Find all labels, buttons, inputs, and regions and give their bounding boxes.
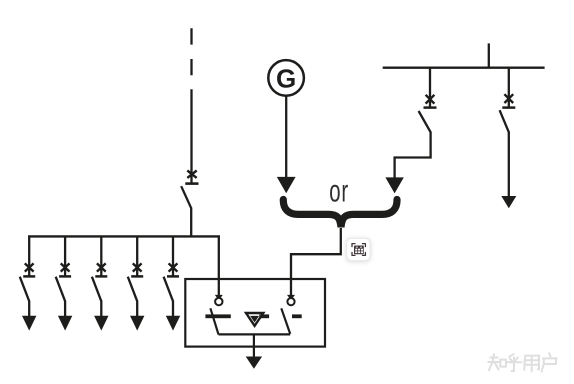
UI icon: table edit button bbox=[346, 238, 372, 263]
wire: brace output to transfer switch right contact bbox=[291, 228, 341, 297]
feeder 2: wire to load bbox=[64, 301, 66, 318]
feeder 3: circuit breaker X with tick bbox=[95, 263, 107, 276]
feeder 1: wire to load bbox=[28, 301, 30, 318]
wire: feeder bus to transfer switch left contact bbox=[218, 236, 220, 296]
wire: branch A jog to brace bbox=[395, 132, 431, 184]
feeder 1: load arrow bbox=[22, 316, 36, 331]
wire: generator to brace bbox=[285, 96, 287, 178]
transfer switch: middle contact bar bbox=[259, 314, 269, 318]
disconnect switch blade (branch B) bbox=[500, 110, 509, 132]
feeder 1: wire drop bbox=[28, 236, 30, 276]
arrow: branch B outgoing bbox=[501, 196, 516, 208]
transfer switch: mechanism inner triangle bbox=[250, 316, 259, 323]
feeder 4: switch blade bbox=[128, 277, 137, 302]
feeder bus bbox=[28, 235, 220, 237]
wire: bus branch B drop bbox=[508, 68, 510, 108]
contact arrowhead (left plug) bbox=[215, 295, 223, 300]
brace: either-source selector bbox=[283, 200, 397, 228]
transfer switch: left blade bbox=[210, 308, 218, 334]
disconnect switch blade (utility main) bbox=[181, 186, 191, 208]
feeder 2: circuit breaker X with tick bbox=[59, 263, 71, 276]
wire: incoming utility supply, dashed continuation bbox=[190, 28, 192, 183]
feeder 5: circuit breaker X with tick bbox=[167, 263, 179, 276]
transfer switch: mechanism triangle bbox=[246, 313, 263, 326]
feeder 5: wire drop bbox=[172, 236, 174, 276]
transfer switch: left fixed contact bar bbox=[205, 314, 230, 318]
generator G circle bbox=[268, 60, 304, 96]
feeder 1: switch blade bbox=[20, 277, 29, 302]
feeder 5: load arrow bbox=[166, 316, 180, 331]
contact arrowhead (right plug) bbox=[287, 295, 295, 300]
feeder 3: wire drop bbox=[100, 236, 102, 276]
busbar: alternate source bus bbox=[383, 66, 545, 68]
feeder 4: load arrow bbox=[130, 316, 144, 331]
transfer switch: right contact bar bbox=[292, 314, 302, 318]
wire: bus branch A drop bbox=[429, 68, 431, 108]
arrow: branch A into brace bbox=[385, 177, 403, 193]
feeder 3: switch blade bbox=[92, 277, 101, 302]
arrow: generator source into brace bbox=[277, 177, 296, 193]
feeder 5: wire to load bbox=[172, 301, 174, 318]
watermark: 知乎用户 bbox=[489, 353, 557, 371]
wire: utility main down to feeder bus bbox=[190, 208, 192, 238]
feeder 4: wire drop bbox=[136, 236, 138, 276]
circuit breaker (branch B, X with tick) bbox=[502, 94, 515, 107]
feeder 4: circuit breaker X with tick bbox=[131, 263, 143, 276]
svg-text:or: or bbox=[329, 173, 349, 209]
feeder 5: switch blade bbox=[164, 277, 173, 302]
contact circle (right) bbox=[287, 298, 294, 305]
circuit breaker (utility main, X symbol with tick) bbox=[185, 171, 198, 184]
transfer switch: right blade bbox=[281, 308, 290, 334]
wire: branch B to outgoing arrow bbox=[508, 132, 510, 198]
disconnect switch blade (branch A) bbox=[419, 111, 431, 132]
feeder 1: circuit breaker X with tick bbox=[23, 263, 35, 276]
transfer switch enclosure box bbox=[185, 279, 325, 347]
wire: transfer switch output bbox=[253, 334, 255, 357]
arrow: output to load bbox=[246, 357, 262, 369]
contact circle (left) bbox=[215, 298, 222, 305]
feeder 2: wire drop bbox=[64, 236, 66, 276]
svg-text:G: G bbox=[276, 64, 296, 94]
feeder 2: switch blade bbox=[56, 277, 65, 302]
feeder 3: wire to load bbox=[100, 301, 102, 318]
wire: bus stub bbox=[488, 43, 490, 67]
feeder 3: load arrow bbox=[94, 316, 108, 331]
transfer switch: common bottom wire bbox=[219, 333, 291, 335]
circuit breaker (branch A, X with tick) bbox=[424, 95, 437, 108]
feeder 2: load arrow bbox=[58, 316, 72, 331]
feeder 4: wire to load bbox=[136, 301, 138, 318]
